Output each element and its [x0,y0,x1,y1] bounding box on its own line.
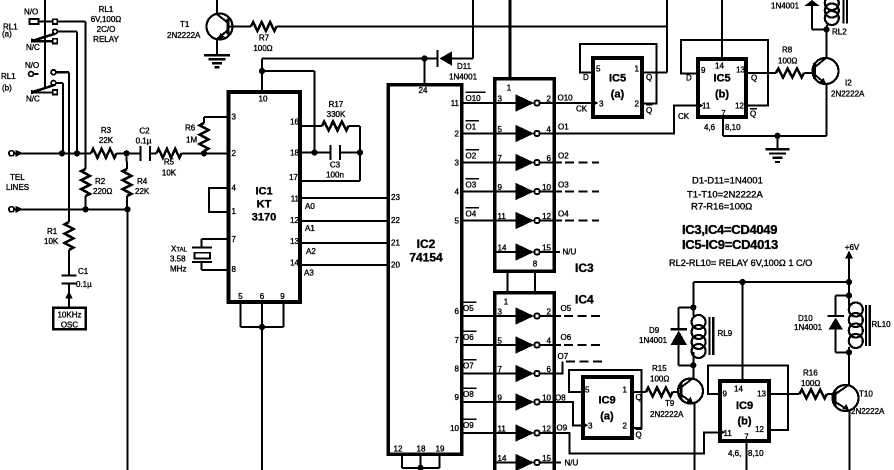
IC IC1 KT3170 box [229,92,301,302]
wire bottom line down [127,209,129,470]
terminal TEL line bottom [9,207,14,212]
svg-text:N/C: N/C [26,95,40,104]
svg-text:O1: O1 [558,123,569,132]
wire IC5a Qbar-D loop [580,44,657,104]
relay RL9 coil [692,315,706,329]
clock arrow IC9b [719,429,725,436]
resistor R3 [91,149,117,158]
svg-text:8,10: 8,10 [725,123,741,132]
node pin18 junction [311,149,317,155]
svg-text:2N2222A: 2N2222A [831,90,865,99]
resistor R17 [302,125,322,127]
wire A2 [302,242,388,244]
svg-text:2: 2 [623,422,628,431]
svg-text:(b): (b) [715,89,729,101]
diode D1 top [805,0,820,6]
svg-text:RL10: RL10 [872,320,892,329]
svg-text:5: 5 [498,125,503,134]
wire A1 [302,220,388,222]
svg-text:5: 5 [455,217,460,226]
IC IC3 box [495,79,555,271]
svg-text:10KHz: 10KHz [57,311,81,320]
svg-text:R5: R5 [164,158,175,167]
svg-text:100Ω: 100Ω [650,375,669,384]
svg-text:D10: D10 [798,314,813,323]
wire RL9 bottom to T9 [692,352,694,379]
svg-text:RL1: RL1 [99,5,114,14]
terminal TEL line top [9,151,14,156]
inverter IC4 gate 1 [495,315,516,317]
svg-text:7: 7 [455,336,460,345]
svg-text:5: 5 [596,65,601,74]
svg-text:220Ω: 220Ω [93,187,112,196]
svg-text:KT: KT [257,199,272,211]
svg-text:IC3: IC3 [575,261,594,275]
svg-text:12: 12 [394,445,403,454]
node supply-right [846,279,852,285]
svg-text:3: 3 [588,422,593,431]
wire O1 to IC5b CK [553,106,696,134]
node RL2 junction [823,26,829,32]
resistor R5 [157,149,182,158]
svg-text:10: 10 [259,95,268,104]
wire IC1 pin18 [302,152,331,154]
wire D11 to top riser [452,58,473,60]
svg-text:5: 5 [498,337,503,346]
svg-text:C3: C3 [330,161,341,170]
svg-text:100n: 100n [326,171,344,180]
svg-text:10K: 10K [44,237,59,246]
svg-text:1N4001: 1N4001 [794,323,823,332]
relay RL2 core [842,0,844,24]
svg-text:3: 3 [498,95,503,104]
svg-text:O3: O3 [558,181,569,190]
svg-text:O3: O3 [466,181,477,190]
wire IC9b pin14 [742,282,744,379]
svg-text:O2: O2 [466,152,477,161]
svg-text:MHz: MHz [170,265,186,274]
svg-text:7: 7 [232,235,237,244]
IC IC9(a) box [583,377,632,438]
svg-text:4: 4 [547,125,552,134]
wire O2 dashed [553,162,562,164]
inverter IC4 gate 3 [495,373,516,375]
capacitor C1 [62,274,77,276]
inverter IC4 gate 5 [495,432,516,434]
wire RL10 bottom to T10 [848,347,850,385]
svg-text:2: 2 [635,100,640,109]
svg-text:16: 16 [290,118,299,127]
svg-text:3170: 3170 [252,212,276,224]
svg-text:8: 8 [232,265,237,274]
node junction R4 bottom [124,206,130,212]
svg-text:R4: R4 [137,177,148,186]
svg-text:N/O: N/O [25,61,39,70]
svg-text:O9: O9 [557,424,568,433]
capacitor C2 [139,146,141,161]
svg-text:4,6: 4,6 [704,123,716,132]
svg-text:24: 24 [419,86,428,95]
node ground junction [774,133,780,139]
wire IC9b Q out [768,393,800,395]
wire O7 jog dashed [553,362,563,374]
svg-text:(a): (a) [611,89,625,101]
wire D10 top branch [836,295,850,297]
svg-text:O8: O8 [463,390,474,399]
svg-text:13: 13 [736,66,745,75]
wire RL1(b) arm down [62,83,64,153]
oscillator 10KHz OSC box [53,308,85,329]
resistor R6 [203,151,205,153]
svg-text:6: 6 [455,307,460,316]
svg-text:IC3,IC4=CD4049: IC3,IC4=CD4049 [682,222,777,237]
svg-text:IC2: IC2 [417,237,436,251]
svg-text:2: 2 [232,149,237,158]
svg-text:O10: O10 [466,94,482,103]
svg-text:8: 8 [533,260,538,269]
svg-text:4: 4 [547,337,552,346]
svg-text:OSC: OSC [61,321,79,330]
svg-text:T10: T10 [859,390,873,399]
resistor R8 [776,69,804,78]
svg-text:1N4001: 1N4001 [449,73,478,82]
IC IC2 74154 box [388,85,462,455]
svg-text:T9: T9 [665,399,675,408]
svg-text:D: D [583,73,589,82]
svg-text:8: 8 [455,365,460,374]
diode D9 [671,328,688,330]
svg-text:O1: O1 [466,123,477,132]
wire RL1(a) N/O to R2 [57,20,85,22]
resistor R7 [229,26,251,28]
transistor I2 [813,58,839,84]
svg-text:RL9: RL9 [718,329,733,338]
svg-text:4: 4 [455,188,460,197]
node D9 top junction [690,304,696,310]
wire IC2 pin24 stub [424,59,426,85]
svg-text:RELAY: RELAY [93,35,119,44]
wire R17 right riser [359,126,361,181]
svg-text:7: 7 [498,365,503,374]
resistor R15 [646,388,673,397]
node D10 top junction [846,292,852,298]
svg-text:R6: R6 [185,124,196,133]
node D9 bottom junction [690,362,696,368]
svg-text:19: 19 [436,445,445,454]
wire relay pole vertical [44,0,46,87]
wire RL9 top lead [692,282,694,316]
wire IC9a Q out [634,391,646,393]
wire O3 dashed [553,191,562,193]
svg-text:A1: A1 [305,224,315,233]
wire IC5b pin14 top [721,0,723,57]
svg-text:9: 9 [723,390,728,399]
svg-text:Q: Q [636,431,642,440]
svg-text:IC5-IC9=CD4013: IC5-IC9=CD4013 [682,237,778,252]
svg-text:3: 3 [455,159,460,168]
svg-text:(b): (b) [2,84,12,93]
IC IC5(b) box [698,59,746,117]
svg-text:10: 10 [542,394,551,403]
svg-text:O6: O6 [561,333,572,342]
svg-text:Q: Q [751,74,757,83]
wire IC9b pin7 down [746,443,748,470]
svg-text:T1: T1 [180,20,190,29]
wire supply horizontal [693,281,849,283]
wire IC1 ground line down [261,327,263,470]
svg-text:I2: I2 [845,79,852,88]
svg-text:9: 9 [701,66,706,75]
svg-text:D1-D11=1N4001: D1-D11=1N4001 [692,176,763,187]
svg-text:13: 13 [757,390,766,399]
inverter IC3 gate 1 [495,102,516,104]
node supply-IC9b [739,279,745,285]
svg-text:11: 11 [291,195,300,204]
wire R8 to I2 base [804,72,812,74]
svg-text:O4: O4 [466,210,477,219]
svg-text:O6: O6 [463,333,474,342]
svg-text:7: 7 [498,154,503,163]
svg-text:22K: 22K [99,136,114,145]
wire supply riser to IC3 pin1 [508,0,511,78]
wire IC2 bottom pins 12,18,19 [401,456,403,468]
resistor R2 [81,169,90,196]
clock arrow IC5b [697,102,703,109]
svg-text:O2: O2 [558,152,569,161]
svg-text:14: 14 [734,385,743,394]
wire D9 top branch [679,307,694,309]
resistor R4 [126,153,129,169]
label N/U IC3 [553,251,560,253]
transistor T10 [833,385,859,411]
wire IC2 outputs lower [462,315,495,317]
svg-text:RL2: RL2 [832,28,847,37]
relay RL10 coil [849,303,863,317]
node junction b-arm [59,150,65,156]
svg-text:R15: R15 [652,364,667,373]
svg-text:9: 9 [498,394,503,403]
svg-text:A3: A3 [304,269,314,278]
wire R7 to IC5a Q riser [277,26,668,28]
IC IC9(b) box [720,381,769,441]
svg-text:5: 5 [238,292,243,301]
svg-text:2: 2 [455,130,460,139]
crystal XTAL 3.58MHz [202,238,229,240]
svg-text:11: 11 [724,429,733,438]
svg-text:R3: R3 [101,126,112,135]
wire IC1 bottom pins 5,6,9 [240,304,242,327]
svg-text:74154: 74154 [409,251,443,265]
svg-text:6: 6 [547,154,552,163]
node junction a-arm [74,150,80,156]
node junction R3/C2/R4 [123,150,129,156]
wire IC1 pin10 node [261,59,263,91]
svg-text:C1: C1 [78,267,89,276]
svg-text:O5: O5 [561,304,572,313]
inverter IC3 gate 6 [495,251,516,253]
ground T1 [204,54,230,56]
svg-text:IC9: IC9 [736,400,753,412]
svg-text:IC5: IC5 [609,73,626,85]
wire TEL bottom [14,208,128,210]
svg-text:100Ω: 100Ω [778,57,797,66]
transistor T1 [207,14,233,40]
svg-text:IC1: IC1 [255,186,272,198]
svg-text:12: 12 [755,425,764,434]
svg-text:12: 12 [735,102,744,111]
svg-text:R1: R1 [47,227,58,236]
svg-text:N/U: N/U [565,459,579,468]
node C3 right junction [357,149,363,155]
svg-text:R7-R16=100Ω: R7-R16=100Ω [691,202,752,213]
svg-text:RL1: RL1 [1,72,16,81]
svg-text:2N2222A: 2N2222A [851,407,885,416]
svg-text:0.1µ: 0.1µ [136,137,152,146]
diode D10 [828,315,845,317]
inverter IC3 gate 4 [495,191,516,193]
svg-text:CK: CK [576,105,588,114]
svg-text:18: 18 [290,149,299,158]
relay RL2 coil [825,0,839,10]
svg-text:14: 14 [290,259,299,268]
wire A3 [302,264,388,266]
node D10 bottom junction [846,349,852,355]
svg-text:10K: 10K [162,169,177,178]
svg-text:O10: O10 [558,94,574,103]
node IC1 bottom junction [259,324,265,330]
wire RL1(b) N/O down to R1 [68,72,70,222]
node junction R5/R6 [201,150,207,156]
svg-text:4,6,: 4,6, [728,449,741,458]
svg-text:Q: Q [750,110,756,119]
svg-text:3.58: 3.58 [170,255,186,264]
svg-text:10: 10 [542,183,551,192]
svg-text:(a): (a) [600,411,614,423]
svg-text:9: 9 [498,183,503,192]
svg-text:1N4001: 1N4001 [639,336,668,345]
wire IC5a Q out [644,71,667,73]
svg-text:11: 11 [702,102,711,111]
svg-text:A0: A0 [305,202,315,211]
svg-text:0.1µ: 0.1µ [76,280,92,289]
svg-text:1: 1 [507,84,512,93]
svg-text:IC4: IC4 [575,293,594,307]
svg-text:9: 9 [280,292,285,301]
wire T9 emitter [693,404,695,470]
wire T10 emitter [848,411,850,470]
wire O10 to IC5a CK [553,102,591,104]
svg-text:11: 11 [451,99,460,108]
svg-text:LINES: LINES [6,183,29,192]
wire IC5b Qbar-D loop [681,40,768,105]
svg-text:8,10: 8,10 [748,449,764,458]
wire IC9b Qbar-D loop [708,365,788,430]
clock arrow IC9a [582,422,588,429]
svg-text:D9: D9 [649,326,660,335]
svg-text:3: 3 [599,100,604,109]
svg-text:7: 7 [744,433,749,442]
svg-text:13: 13 [290,237,299,246]
inverter IC4 gate 6 [495,462,516,464]
wire TEL top [14,152,91,154]
svg-text:N/O: N/O [24,8,38,17]
relay RL10 core [865,305,867,346]
svg-text:R7: R7 [259,34,270,43]
svg-text:14: 14 [498,244,507,253]
diode D11 [436,50,438,67]
wire IC5b Q out [746,72,776,74]
wire RL1(a) arm down [76,32,78,154]
IC IC5(a) box [593,58,642,117]
svg-text:23: 23 [391,193,400,202]
svg-text:6: 6 [260,292,265,301]
svg-text:A2: A2 [306,247,316,256]
svg-text:12: 12 [542,425,551,434]
svg-text:6V,100Ω: 6V,100Ω [91,15,122,24]
svg-text:R8: R8 [782,46,793,55]
svg-text:7: 7 [721,109,726,118]
svg-text:R2: R2 [95,177,106,186]
wire A0 [302,197,388,199]
node D11 junction [421,55,427,61]
svg-text:10: 10 [450,424,459,433]
svg-text:100Ω: 100Ω [253,44,272,53]
svg-text:Q: Q [646,73,652,82]
svg-text:R17: R17 [329,100,344,109]
wire O5 dashed [553,315,561,317]
wire IC3 pin8 stubs to IC4 [506,272,508,293]
svg-text:D: D [686,74,692,83]
svg-text:6: 6 [547,365,552,374]
svg-text:+6V: +6V [845,243,860,252]
transistor T9 [678,379,703,404]
svg-text:O4: O4 [558,210,569,219]
svg-text:O7: O7 [558,352,569,361]
wire O4 dashed [553,220,562,222]
svg-text:Q: Q [646,106,652,115]
svg-text:O7: O7 [463,362,474,371]
svg-text:3: 3 [232,113,237,122]
relay RL9 core [708,317,710,355]
svg-text:11: 11 [498,425,507,434]
capacitor C3 [329,145,331,160]
relay contact RL1(b) [29,72,34,77]
svg-text:RL2-RL10= RELAY 6V,100Ω 1 C/O: RL2-RL10= RELAY 6V,100Ω 1 C/O [669,258,812,268]
svg-text:11: 11 [498,212,507,221]
inverter IC3 gate 3 [495,162,516,164]
svg-text:N/U: N/U [563,248,577,257]
svg-text:D11: D11 [457,62,472,71]
wire IC1 pin4-pin1 loop [209,188,229,212]
wire C1 to OSC [68,284,70,307]
svg-text:1: 1 [635,65,640,74]
inverter IC3 gate 5 [495,220,516,222]
ground main [777,136,779,149]
svg-text:9: 9 [455,393,460,402]
svg-text:15: 15 [542,454,551,463]
svg-text:18: 18 [417,445,426,454]
svg-text:(a): (a) [2,30,12,39]
svg-text:2: 2 [547,95,552,104]
wire O6 dashed [553,344,561,346]
svg-text:2N2222A: 2N2222A [167,31,201,40]
svg-text:T1-T10=2N2222A: T1-T10=2N2222A [687,190,763,201]
svg-text:330K: 330K [327,110,346,119]
svg-text:5: 5 [585,386,590,395]
svg-text:C2: C2 [139,127,150,136]
svg-text:1M: 1M [186,136,197,145]
label N/U IC4 [553,462,561,464]
